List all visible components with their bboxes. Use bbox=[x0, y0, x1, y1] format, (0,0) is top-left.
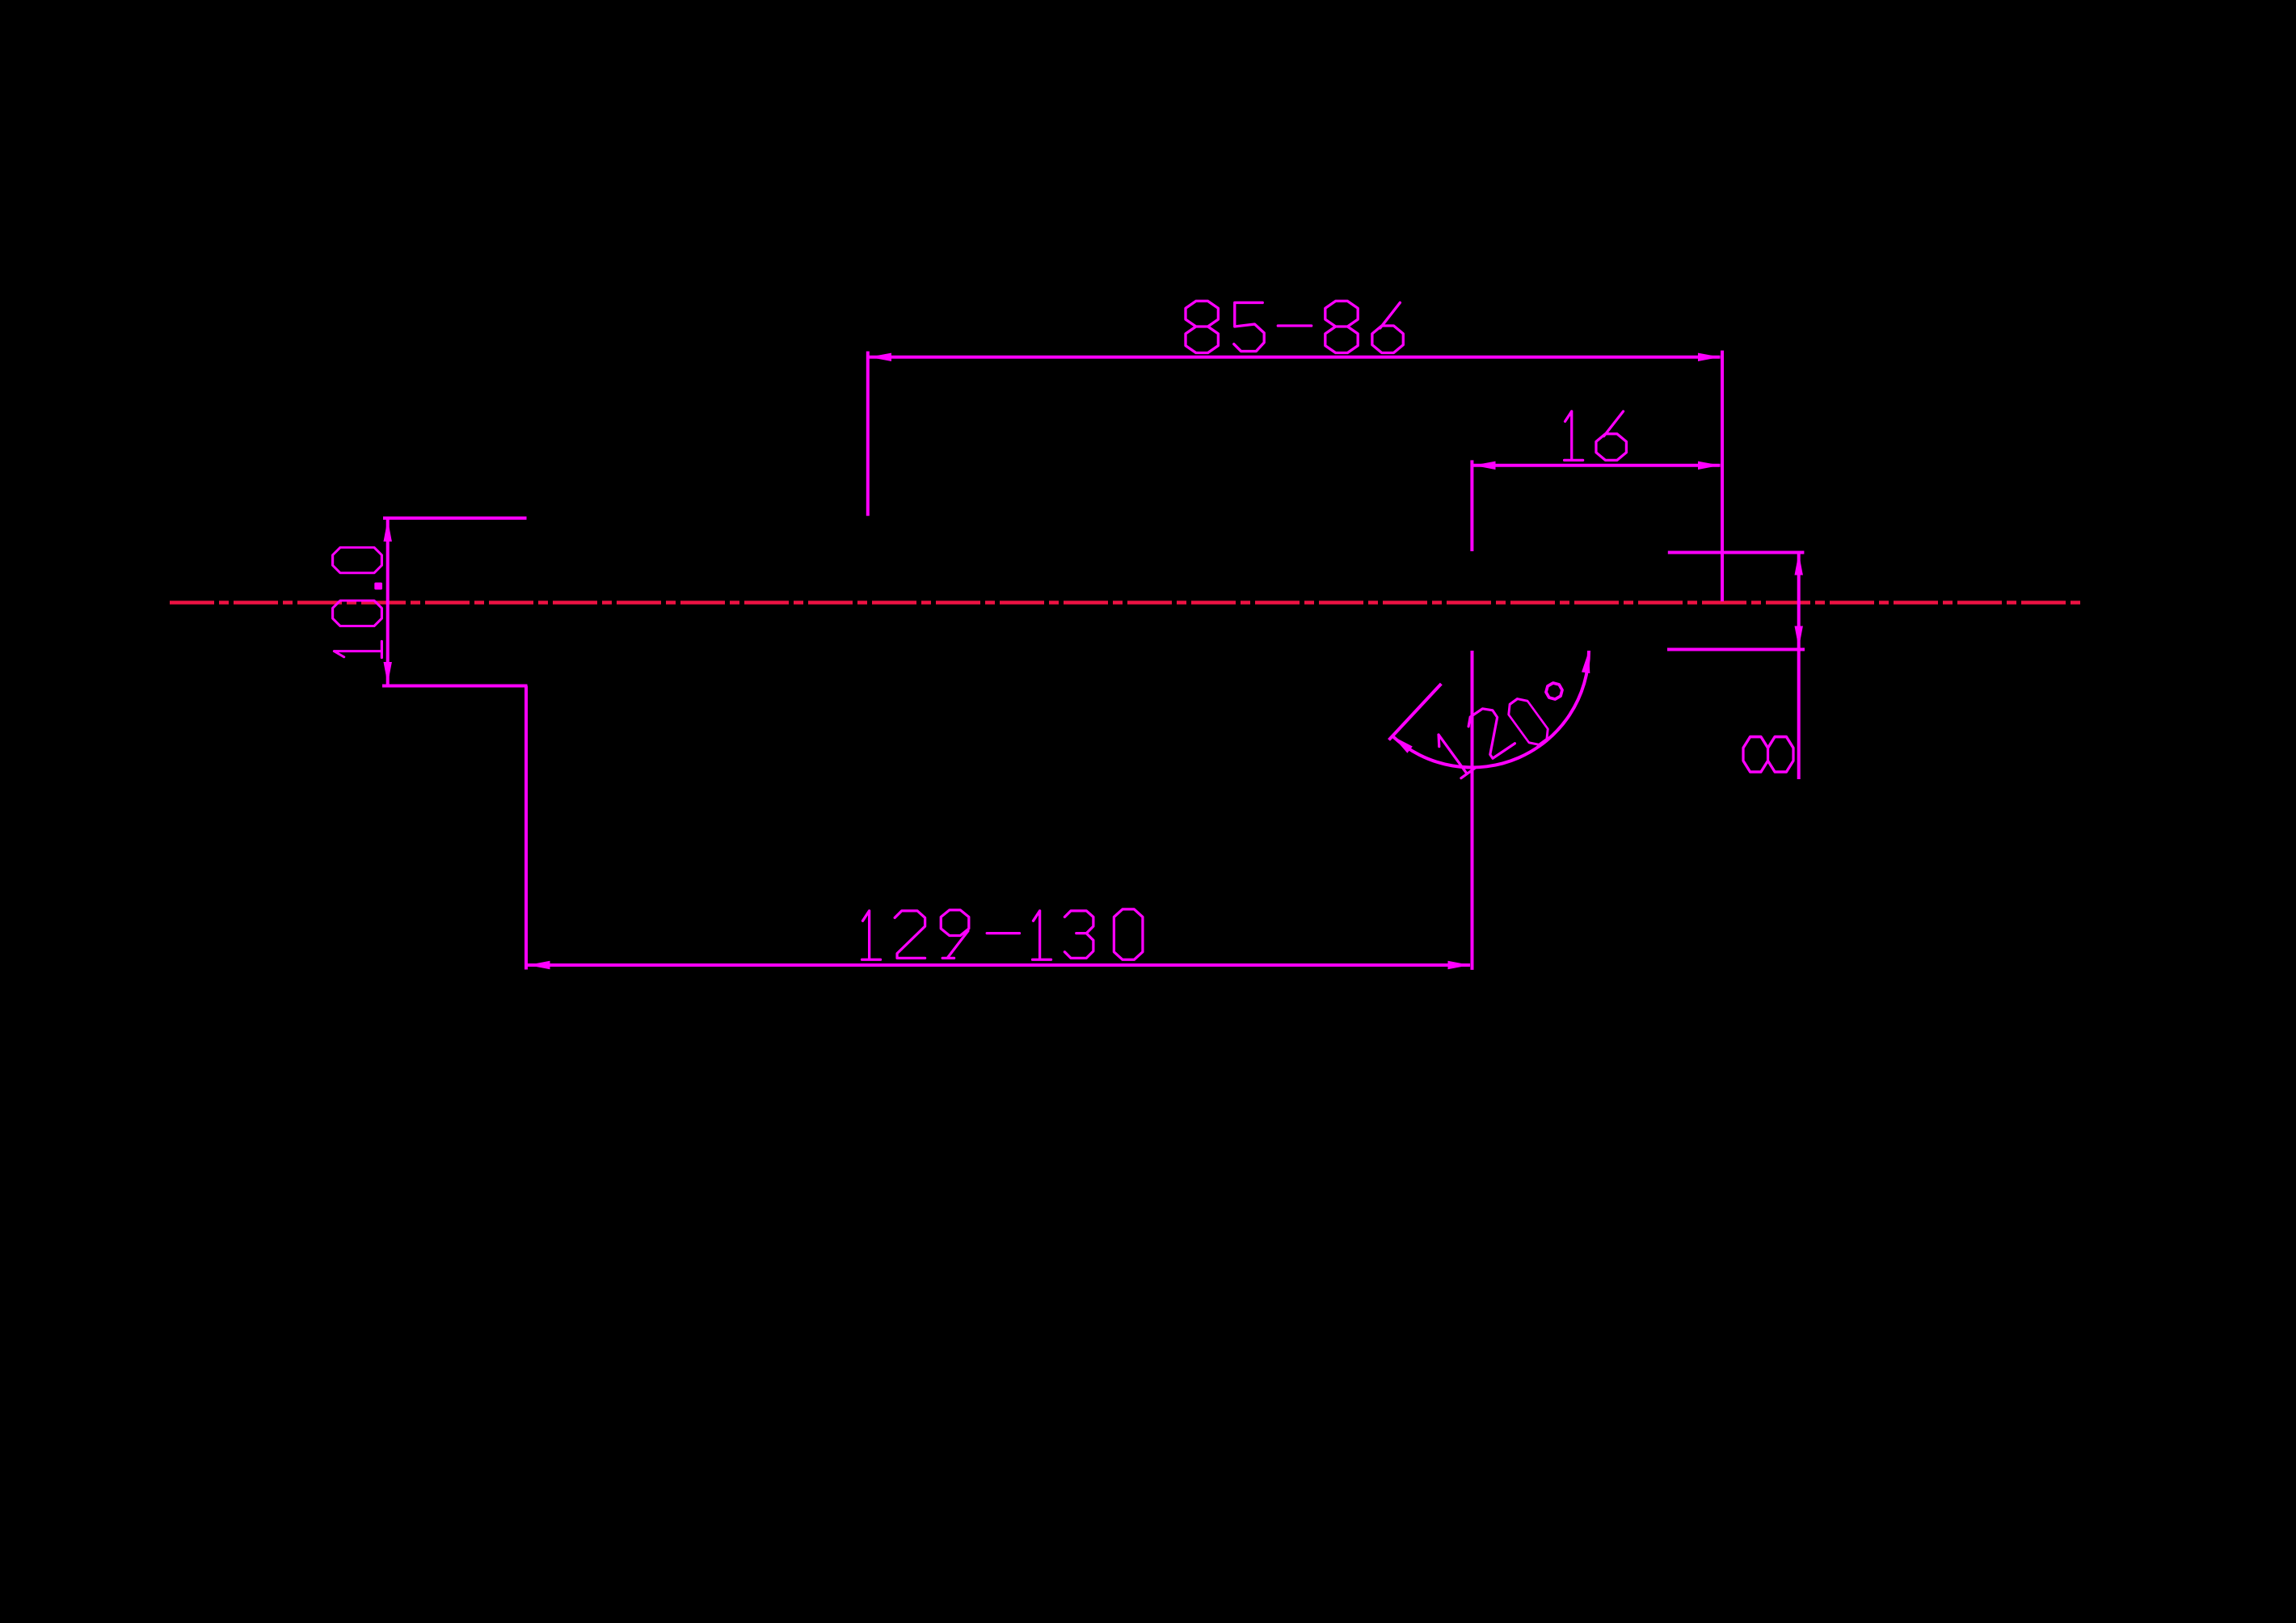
angular dim: arc right arrow bbox=[1582, 650, 1593, 673]
part edge: right step lower horizontal bbox=[1667, 648, 1805, 651]
dimension 16: text bbox=[1565, 411, 1583, 460]
angular dim: arc left arrow bbox=[1390, 733, 1413, 753]
dimension 10.0: text (rotated) bbox=[334, 641, 381, 657]
dimension 8: top arrow bbox=[1795, 553, 1803, 575]
dimension 85-86: text bbox=[1186, 301, 1218, 352]
angular dim: arc bbox=[1392, 651, 1589, 767]
angular dim: text 120deg (rotated) bbox=[1433, 728, 1477, 778]
dimension 85-86: left extension line bbox=[866, 352, 870, 516]
angular dim: chamfer ray bbox=[1389, 684, 1442, 740]
part edge: top-left horizontal bbox=[383, 516, 527, 520]
dimension 129-130: dim line bbox=[528, 963, 1470, 967]
dimension 8: bottom arrow bbox=[1795, 626, 1803, 649]
part edge / extension: left vertical (x=651) bbox=[524, 686, 528, 970]
dimension 129-130: left arrow bbox=[528, 961, 550, 969]
part edge: bottom-left horizontal bbox=[382, 685, 528, 688]
dimension 129-130: right arrow bbox=[1448, 961, 1471, 969]
dimension 85-86 / 16: right extension line bbox=[1721, 351, 1724, 601]
dimension 16: left arrow bbox=[1473, 462, 1496, 470]
dimension 10.0: top arrow bbox=[384, 520, 392, 542]
centerline (red dash-dot axis) bbox=[170, 601, 2083, 605]
dimension 16: right arrow bbox=[1698, 462, 1721, 470]
part edge: right step upper horizontal bbox=[1668, 551, 1805, 554]
dimension 129-130: text bbox=[862, 911, 881, 959]
dimension 16: dim line bbox=[1473, 464, 1721, 467]
dimension 8: dim line bbox=[1797, 553, 1801, 779]
dimension 16: left extension line bbox=[1470, 460, 1473, 551]
dimension 8: text (rotated) bbox=[1743, 737, 1793, 772]
dimension 85-86: left arrow bbox=[870, 353, 892, 361]
dimension 10.0: dim line bbox=[386, 520, 390, 685]
angular dim: vertex extension line (vertical) bbox=[1471, 651, 1474, 970]
dimension 10.0: bottom arrow bbox=[384, 662, 392, 685]
dimension 85-86: dim line bbox=[870, 356, 1721, 359]
dimension 85-86: right arrow bbox=[1698, 353, 1721, 361]
